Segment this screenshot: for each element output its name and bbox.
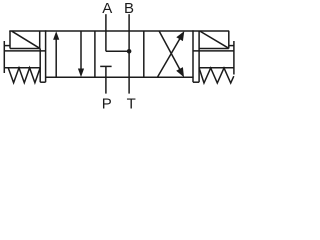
valve body bottom edge [45, 76, 194, 78]
wire arrow-up line (P to A, left square) [55, 37, 57, 78]
node B/T port line [128, 14, 130, 93]
right pin connector [229, 45, 234, 47]
valve body left edge [45, 30, 47, 82]
spring left zigzag [8, 68, 40, 83]
wire top rail (solenoid tops + valve body top edge) [9, 30, 229, 32]
arrowhead up-right (right square) [176, 31, 184, 41]
wire crossed descending line (right square) [159, 31, 181, 71]
spring right inner plate [198, 49, 200, 83]
svg-text:B: B [124, 0, 134, 17]
spring left top seat line [4, 67, 40, 69]
wire crossed ascending line (right square) [157, 36, 181, 77]
spring right top seat line [199, 67, 234, 69]
solenoid right box [199, 31, 229, 49]
left pin vertical [3, 41, 5, 73]
valve body divider 1 [94, 31, 96, 77]
valve body right edge [192, 30, 194, 82]
left armature plate line [4, 50, 45, 52]
arrowhead down-right (right square) [176, 67, 184, 77]
svg-text:A: A [102, 0, 112, 17]
spring right foot [193, 81, 199, 83]
solenoid left diagonal [12, 31, 40, 48]
left pin connector [4, 45, 10, 47]
node P blocked stem [105, 66, 107, 93]
spring left inner plate [39, 49, 41, 83]
junction dot [127, 49, 132, 54]
svg-text:P: P [102, 96, 112, 113]
svg-text:T: T [127, 96, 136, 113]
arrowhead up (left square) [53, 31, 59, 40]
right pin vertical [233, 41, 235, 75]
right armature plate line [193, 50, 234, 52]
solenoid right diagonal [200, 31, 229, 48]
node P blocked cap [100, 65, 111, 67]
wire A-B elbow connector [106, 50, 129, 52]
spring right zigzag [199, 68, 234, 83]
solenoid left box [10, 31, 40, 49]
wire arrow-down line (B to T, left square) [80, 31, 82, 72]
valve body divider 2 [143, 31, 145, 77]
spring left foot [40, 81, 45, 83]
node A port line [105, 14, 107, 51]
arrowhead down (left square) [78, 69, 84, 78]
